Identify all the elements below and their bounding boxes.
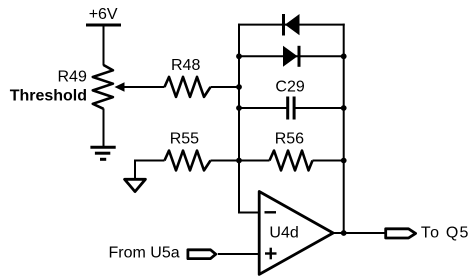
svg-text:R48: R48 bbox=[171, 57, 200, 74]
diode D2 pointing right bbox=[283, 46, 301, 67]
wire C29 left bbox=[239, 107, 287, 109]
wire R55 left to ground corner bbox=[135, 161, 165, 180]
resistor R56 zigzag bbox=[270, 151, 313, 171]
svg-text:R55: R55 bbox=[170, 130, 199, 147]
junction dot left bus D2 bbox=[236, 53, 242, 59]
junction dot left bus R48 bbox=[236, 84, 242, 90]
wire wiper to R48 bbox=[124, 86, 165, 88]
op-amp plus sign bbox=[265, 248, 277, 260]
wire op-amp output bbox=[331, 232, 385, 234]
junction dot right bus D2 bbox=[341, 53, 347, 59]
right bus vertical wire bbox=[343, 24, 345, 233]
junction dot right bus C29 bbox=[341, 105, 347, 111]
junction dot right bus R56 bbox=[341, 158, 347, 164]
wire R55 to left bus bbox=[211, 160, 240, 162]
junction dot left bus R55/R56 bbox=[236, 158, 242, 164]
output flag To Q5 bbox=[386, 229, 416, 238]
svg-text:+6V: +6V bbox=[89, 6, 118, 23]
potentiometer R49 wiper arrowhead bbox=[115, 82, 125, 91]
svg-text:R49: R49 bbox=[58, 68, 87, 85]
wire left bus to R56 bbox=[239, 160, 270, 162]
svg-text:From U5a: From U5a bbox=[109, 245, 180, 262]
wire top (diode D1 branch) bbox=[238, 24, 345, 26]
wire R48 to left bus bbox=[211, 86, 240, 88]
wire input flag to non-inverting input bbox=[218, 253, 259, 255]
svg-text:Threshold: Threshold bbox=[10, 87, 87, 104]
op-amp minus sign bbox=[265, 211, 277, 213]
resistor R48 zigzag bbox=[165, 77, 211, 97]
svg-text:R56: R56 bbox=[275, 130, 304, 147]
wire C29 right bbox=[295, 107, 343, 109]
wire R56 to right bus bbox=[313, 160, 344, 162]
left bus vertical wire bbox=[238, 24, 240, 213]
diode D1 pointing left bbox=[282, 14, 300, 36]
svg-text:C29: C29 bbox=[275, 78, 304, 95]
earth ground symbol bbox=[90, 147, 115, 159]
wire diode D2 branch bbox=[239, 55, 344, 57]
power rail +6V bar bbox=[86, 24, 121, 27]
capacitor C29 plates bbox=[286, 97, 295, 120]
input flag From U5a bbox=[188, 250, 216, 259]
wire left bus to inverting input bbox=[238, 212, 259, 214]
signal ground triangle bbox=[125, 179, 146, 191]
resistor R55 zigzag bbox=[165, 151, 211, 171]
wire R49 bottom to ground bbox=[103, 109, 105, 148]
junction dot output bbox=[341, 230, 347, 236]
wire from +6V bar to R49 top bbox=[103, 25, 105, 66]
op-amp U4d triangle bbox=[259, 192, 333, 275]
svg-text:U4d: U4d bbox=[269, 225, 298, 242]
junction dot left bus C29 bbox=[236, 105, 242, 111]
potentiometer R49 zigzag bbox=[93, 65, 113, 109]
